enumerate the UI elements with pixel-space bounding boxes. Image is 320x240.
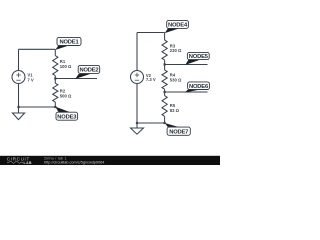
svg-text:530 Ω: 530 Ω xyxy=(170,78,182,83)
svg-text:NODE7: NODE7 xyxy=(169,130,188,136)
svg-text:83 Ω: 83 Ω xyxy=(170,108,180,113)
svg-text:NODE6: NODE6 xyxy=(189,84,209,90)
svg-text:NODE2: NODE2 xyxy=(79,68,98,74)
svg-text:NODE5: NODE5 xyxy=(189,54,209,60)
svg-text:100 Ω: 100 Ω xyxy=(60,64,72,69)
svg-text:7.3 V: 7.3 V xyxy=(146,77,156,82)
svg-text:500 Ω: 500 Ω xyxy=(60,94,72,99)
svg-text:NODE1: NODE1 xyxy=(60,40,80,46)
svg-text:7 V: 7 V xyxy=(27,78,33,83)
svg-text:http://circuitlab.com/c/5gncwd: http://circuitlab.com/c/5gncwdp9064 xyxy=(44,161,104,165)
svg-text:230 Ω: 230 Ω xyxy=(170,48,182,53)
svg-text:LAB: LAB xyxy=(24,161,33,165)
svg-text:NODE3: NODE3 xyxy=(57,115,77,121)
svg-text:NODE4: NODE4 xyxy=(168,23,188,29)
